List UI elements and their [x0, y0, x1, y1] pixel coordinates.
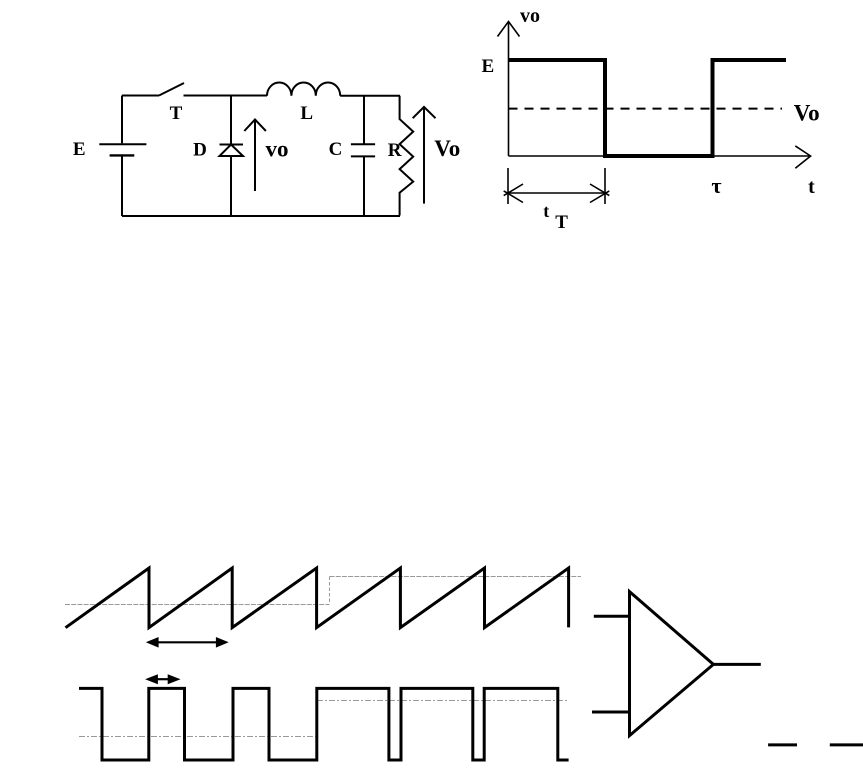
svg-text:L: L — [300, 103, 313, 124]
svg-text:τ: τ — [711, 173, 721, 198]
svg-text:vo: vo — [266, 137, 289, 162]
svg-text:t: t — [808, 176, 815, 198]
svg-text:R: R — [388, 140, 402, 161]
svg-text:T: T — [170, 103, 183, 124]
svg-text:D: D — [193, 140, 207, 161]
svg-text:T: T — [555, 212, 568, 233]
svg-text:vo: vo — [520, 5, 540, 27]
svg-text:t: t — [543, 201, 549, 221]
svg-text:Vo: Vo — [434, 136, 460, 161]
svg-text:E: E — [482, 56, 495, 77]
svg-text:Vo: Vo — [794, 101, 820, 126]
svg-text:C: C — [329, 139, 343, 160]
svg-text:E: E — [73, 139, 86, 160]
